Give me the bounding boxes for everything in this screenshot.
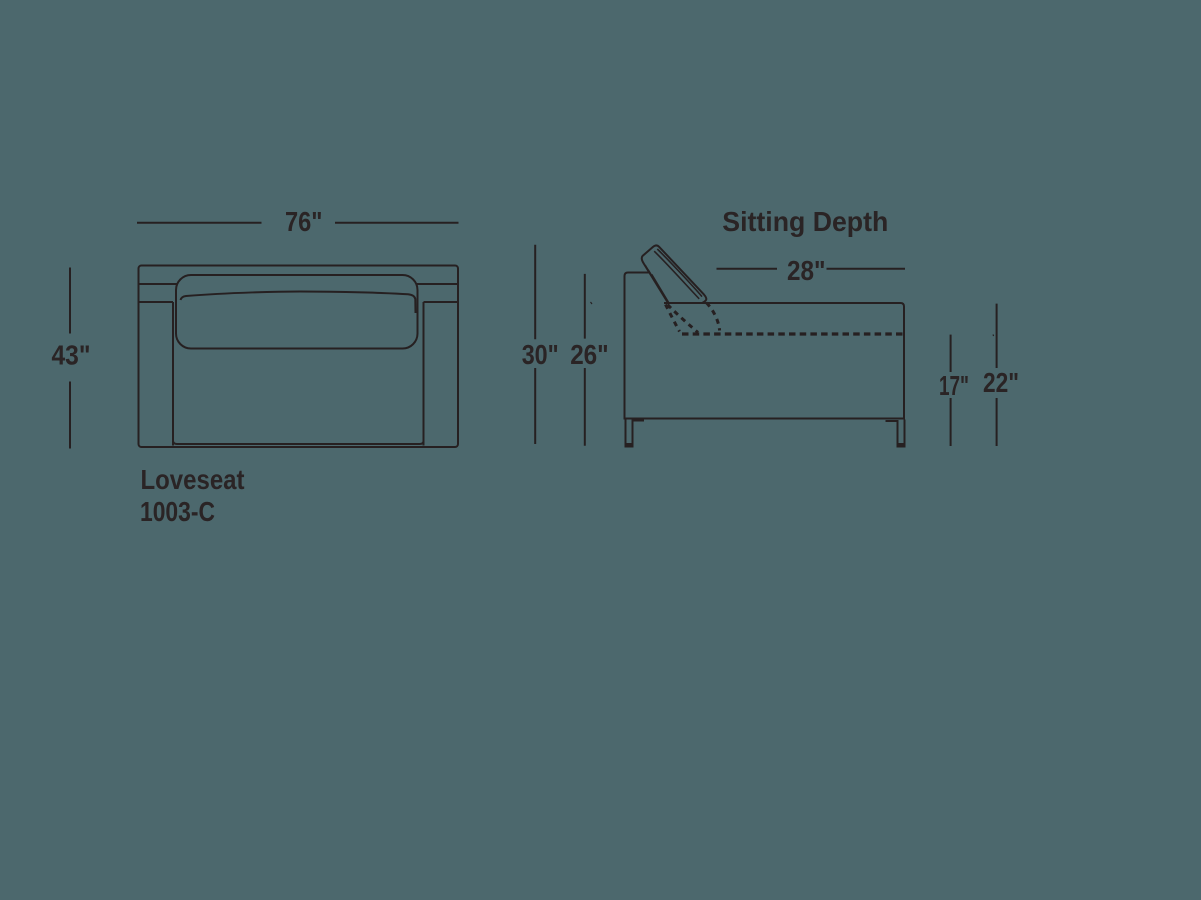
side view: right leg	[886, 420, 905, 447]
side view: left leg foot	[626, 443, 633, 447]
side view: dimension line 28" left segment	[717, 268, 778, 270]
side view: cushion fan crease line 2	[648, 270, 668, 303]
side view: dimension line 22" bottom segment	[996, 398, 998, 446]
svg-text:Loveseat: Loveseat	[141, 464, 245, 495]
front view: cushion seam line	[181, 292, 416, 314]
svg-text:17": 17"	[939, 370, 969, 401]
side view: dimension line 22" top segment	[996, 304, 998, 368]
front view: left arm inner vertical	[172, 302, 174, 446]
side view: dashed sitting depth line	[682, 332, 904, 335]
front view: seat bottom line	[173, 441, 424, 444]
stray mark left	[591, 302, 593, 304]
side view: dimension line 28" right segment	[827, 268, 906, 270]
svg-text:1003-C: 1003-C	[140, 496, 215, 527]
side view: dimension line 26" bottom segment	[584, 368, 586, 446]
side view: tilted back cushion outline	[642, 245, 707, 302]
side view: cushion fan crease line 1	[645, 265, 668, 303]
side view: dimension line 30" top segment	[534, 245, 536, 339]
svg-text:Sitting Depth: Sitting Depth	[722, 206, 888, 237]
side view: dimension line 17" bottom segment	[950, 398, 952, 446]
side view: dimension line 17" top segment	[950, 335, 952, 372]
front view: outer body rectangle	[139, 266, 459, 448]
side view: left leg	[626, 420, 645, 447]
svg-text:30": 30"	[522, 339, 559, 370]
front view: back top line	[140, 283, 458, 285]
side view: cushion fan crease line 3	[652, 274, 669, 303]
front view: right arm top line	[424, 301, 458, 303]
front view: dimension line 76" left segment	[137, 222, 262, 224]
side view: dashed folded cushion left diagonal	[666, 305, 680, 332]
front view: dimension line 76" right segment	[335, 222, 459, 224]
side view: dimension line 30" bottom segment	[534, 368, 536, 444]
side view: body outline	[625, 273, 905, 419]
side view: dashed folded cushion mid diagonal	[668, 305, 699, 333]
stray mark right	[992, 335, 995, 337]
front view: back cushion	[176, 275, 418, 349]
front view: right arm inner vertical	[423, 302, 425, 446]
svg-text:26": 26"	[570, 339, 609, 370]
side view: cushion inner seam line 2	[654, 251, 699, 299]
front view: dimension line 43" bottom segment	[69, 382, 71, 449]
front view: left arm top line	[140, 301, 174, 303]
svg-text:76": 76"	[285, 206, 323, 237]
svg-text:22": 22"	[983, 367, 1019, 398]
front view: dimension line 43" top segment	[69, 268, 71, 334]
side view: cushion inner seam line 1	[657, 249, 702, 297]
svg-text:43": 43"	[52, 340, 91, 371]
side view: dimension line 26" top segment	[584, 274, 586, 339]
svg-text:28": 28"	[787, 255, 826, 286]
side view: dashed folded cushion right arc	[707, 303, 720, 331]
side view: right leg foot	[898, 443, 905, 447]
